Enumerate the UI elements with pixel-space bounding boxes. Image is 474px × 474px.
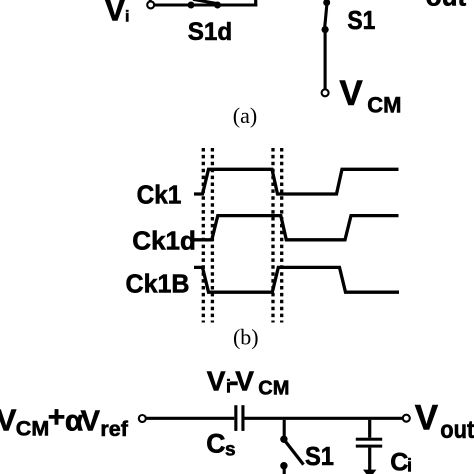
svg-text:CM: CM [367, 92, 401, 117]
svg-text:CM: CM [16, 417, 49, 441]
svg-text:+: + [48, 401, 66, 434]
svg-text:CM: CM [258, 377, 289, 399]
svg-text:Ck1: Ck1 [137, 179, 182, 209]
svg-text:V: V [235, 366, 254, 397]
svg-text:Ck1d: Ck1d [132, 226, 196, 256]
svg-text:S1: S1 [305, 441, 334, 471]
svg-text:s: s [225, 440, 236, 461]
svg-text:C: C [206, 429, 225, 459]
svg-text:V: V [339, 74, 363, 113]
svg-text:C: C [390, 448, 408, 474]
svg-text:V: V [104, 0, 126, 28]
svg-text:S1d: S1d [188, 18, 233, 46]
svg-text:out: out [440, 416, 474, 444]
svg-text:out: out [426, 0, 467, 12]
svg-text:V: V [207, 366, 226, 397]
svg-text:ref: ref [100, 417, 128, 441]
svg-text:i: i [407, 456, 412, 474]
svg-text:i: i [125, 8, 129, 25]
svg-text:(a): (a) [233, 103, 257, 128]
svg-text:V: V [0, 403, 17, 438]
svg-text:(b): (b) [233, 325, 259, 350]
svg-text:S1: S1 [347, 5, 375, 35]
svg-text:V: V [81, 406, 101, 438]
svg-text:Ck1B: Ck1B [126, 269, 190, 299]
svg-text:V: V [415, 399, 439, 438]
